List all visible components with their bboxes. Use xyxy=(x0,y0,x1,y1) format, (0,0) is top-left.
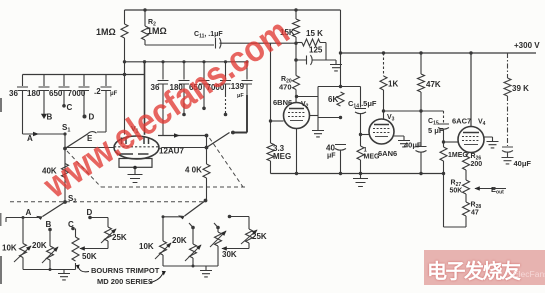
scan edge marks xyxy=(0,98,2,284)
svg-text:200: 200 xyxy=(471,161,483,168)
svg-text:10K: 10K xyxy=(2,244,17,253)
wire V2 plate node xyxy=(297,96,319,98)
potentiometer 50K (left) xyxy=(75,229,77,238)
svg-text:C: C xyxy=(68,220,74,229)
tube V4 internals xyxy=(463,132,479,134)
svg-text:15 K: 15 K xyxy=(306,29,323,38)
potentiometer 20K (left) xyxy=(49,230,51,247)
wire grid V2 xyxy=(271,120,284,122)
contact arrowhead (right bank) xyxy=(178,215,185,219)
ground (V3 right) xyxy=(398,141,410,147)
capacitor 36 (right bank) xyxy=(158,62,169,136)
resistor 1MEG (V4 grid) xyxy=(443,142,445,147)
switch S1 arm xyxy=(65,134,88,149)
svg-text:40μF: 40μF xyxy=(404,141,422,150)
wire V1 right plate xyxy=(158,135,207,137)
capacitor 7000 (left bank) xyxy=(79,75,90,116)
tube V2 6BN6 envelope xyxy=(284,103,310,129)
potentiometer 30K (right) xyxy=(214,223,218,232)
tube V3 6AN6 envelope xyxy=(369,119,394,144)
svg-text:10K: 10K xyxy=(139,242,154,251)
svg-text:V4: V4 xyxy=(478,119,486,128)
svg-text:6AC7: 6AC7 xyxy=(452,117,471,126)
capacitor 36 (left bank) xyxy=(17,75,28,135)
wiper wire 25K to 50K xyxy=(80,248,108,250)
resistor R2 1M xyxy=(144,10,146,26)
svg-text:B: B xyxy=(46,220,52,229)
svg-text:.2: .2 xyxy=(94,87,101,96)
switch S1 wire to contact A xyxy=(23,133,66,135)
potentiometer 25K (right) xyxy=(230,217,250,230)
wire +300V feed vertical xyxy=(340,10,342,87)
capacitor 40uF (load) xyxy=(502,147,513,157)
wire V3 right pin xyxy=(394,136,404,140)
potentiometer 10K (right) xyxy=(160,241,167,255)
svg-text:1MΩ: 1MΩ xyxy=(147,26,167,36)
wire +300V rail xyxy=(341,52,537,54)
svg-text:40μF: 40μF xyxy=(514,159,532,168)
tube V1 internals xyxy=(122,138,149,145)
capacitor 7000 (right bank) xyxy=(220,62,231,95)
potentiometer 20K (right) xyxy=(189,223,193,244)
svg-text:6BN6: 6BN6 xyxy=(273,98,292,107)
svg-text:650: 650 xyxy=(49,89,63,98)
wire A' to 10K xyxy=(6,218,42,223)
capacitor C11 .1uF xyxy=(216,38,222,49)
svg-text:40: 40 xyxy=(326,144,335,153)
svg-text:A: A xyxy=(27,134,33,143)
svg-text:Eout: Eout xyxy=(491,185,504,196)
svg-text:1K: 1K xyxy=(388,80,398,89)
capacitor C14 .5uF xyxy=(355,87,366,147)
capacitor .139uF (right bank) xyxy=(242,62,253,95)
svg-text:6K: 6K xyxy=(328,95,338,104)
resistor 3.3MEG xyxy=(270,43,272,143)
svg-text:20K: 20K xyxy=(172,236,187,245)
wire V1 left grid to S1 pivot xyxy=(65,134,114,202)
wire V2 right pin xyxy=(310,115,319,117)
contact A' arrowhead xyxy=(36,216,43,220)
svg-text:470: 470 xyxy=(279,83,292,92)
resistor 6K xyxy=(337,92,344,106)
svg-text:7000: 7000 xyxy=(68,89,86,98)
gang dashed link S1-S1' xyxy=(10,138,246,202)
svg-text:5 μF: 5 μF xyxy=(428,126,444,135)
wire left cap-bank rail xyxy=(23,74,145,76)
wire V3 grid xyxy=(361,134,370,136)
capacitor 650 (left bank) xyxy=(59,75,70,106)
resistor 40K (left) xyxy=(62,164,69,178)
ground (right pot bank) xyxy=(205,266,207,270)
svg-text:47: 47 xyxy=(471,210,479,217)
wire V2 screen vertical xyxy=(317,87,319,131)
svg-text:D: D xyxy=(89,113,95,122)
red watermark box bottom right xyxy=(424,250,545,285)
svg-text:μF: μF xyxy=(110,91,118,97)
wire V1 right grid xyxy=(162,147,207,149)
ground (main rail) xyxy=(360,174,362,179)
svg-text:50K: 50K xyxy=(82,252,97,261)
switch S1' arm xyxy=(207,133,230,148)
ground (left pot bank) xyxy=(63,270,65,274)
svg-text:μF: μF xyxy=(237,93,244,99)
svg-text:4 0K: 4 0K xyxy=(185,166,202,175)
tube V1 heater box xyxy=(119,159,152,168)
tube V3 internals xyxy=(374,124,389,126)
wire right cap-bank rail xyxy=(125,61,248,63)
Eout wiper arrow xyxy=(475,188,506,190)
contact A'' arrowhead xyxy=(174,133,180,137)
contact E arc xyxy=(87,132,97,135)
svg-text:1MΩ: 1MΩ xyxy=(96,27,116,37)
svg-text:μF: μF xyxy=(327,153,336,160)
wire left pot ground rail xyxy=(23,269,76,271)
svg-text:A: A xyxy=(26,208,32,217)
gang dashed link S2-S2' xyxy=(10,201,203,203)
capacitor 40uF (first) xyxy=(335,145,346,174)
ground (125 cap) xyxy=(335,60,337,64)
wire V1 left plate line xyxy=(144,62,146,135)
wiper wire 25K to 30K (right) xyxy=(222,248,249,250)
svg-text:47K: 47K xyxy=(426,80,441,89)
svg-text:B: B xyxy=(47,113,53,122)
svg-text:C: C xyxy=(67,103,73,112)
svg-text:12AU7: 12AU7 xyxy=(159,147,184,156)
tube V4 6AC7 envelope xyxy=(458,127,484,153)
ground (V4 right) xyxy=(487,142,499,148)
wire ground rail xyxy=(271,173,444,175)
wire V2 cathode xyxy=(296,129,298,174)
resistor 1MEG (V3 grid) xyxy=(357,146,364,160)
svg-text:30K: 30K xyxy=(222,250,237,259)
wire plate bus to C15 xyxy=(384,110,444,112)
svg-text:25K: 25K xyxy=(252,232,267,241)
contact A arrowhead xyxy=(33,132,39,136)
svg-text:C11, .1μF: C11, .1μF xyxy=(194,31,223,40)
capacitor 125 xyxy=(296,55,336,65)
wire contact to 10K (right) xyxy=(163,217,184,241)
wire V4 right pin xyxy=(484,137,493,141)
svg-text:BOURNS TRIMPOT: BOURNS TRIMPOT xyxy=(91,266,160,275)
svg-text:50K: 50K xyxy=(450,188,463,195)
wire C11 to 15K node xyxy=(220,42,297,44)
capacitor 650 (right bank) xyxy=(199,62,210,108)
svg-text:MEG: MEG xyxy=(273,152,291,161)
capacitor 40uF (second) xyxy=(416,147,427,174)
ground (V1) xyxy=(134,167,136,174)
svg-text:36: 36 xyxy=(9,89,18,98)
svg-text:+300 V: +300 V xyxy=(514,41,540,50)
potentiometer 10K (left) xyxy=(22,218,24,244)
ground (load) xyxy=(502,158,514,164)
svg-text:1MEG: 1MEG xyxy=(448,152,468,159)
svg-text:125: 125 xyxy=(309,46,323,55)
wire V2 g3 xyxy=(318,117,341,119)
resistor 1M (left) xyxy=(124,10,126,24)
resistor R27 50K xyxy=(463,180,470,194)
tube V1 12AU7 envelope xyxy=(114,136,159,159)
resistor R26 200 xyxy=(466,152,469,156)
resistor 15K vertical xyxy=(295,10,297,19)
wire V4 grid xyxy=(444,141,459,143)
resistor 1K xyxy=(383,53,385,76)
capacitor 180 (right bank) xyxy=(179,62,190,114)
capacitor .2uF (left bank) xyxy=(97,75,112,133)
svg-text:MD 200 SERIES: MD 200 SERIES xyxy=(97,277,153,286)
svg-text:20K: 20K xyxy=(32,241,47,250)
wire plate to C14 xyxy=(318,86,361,88)
wire V3 plate xyxy=(383,111,385,120)
wire R2 to C11 xyxy=(145,44,214,46)
switch S2 arm xyxy=(43,202,66,217)
svg-text:39 K: 39 K xyxy=(512,84,529,93)
resistor R28 47 xyxy=(463,202,470,216)
resistor 15K horizontal xyxy=(296,42,302,44)
wire V4 plate to rail xyxy=(470,53,472,127)
svg-text:180: 180 xyxy=(27,89,41,98)
wire output loop bottom xyxy=(444,226,467,228)
resistor 40K (right) xyxy=(206,136,208,165)
ground (V2 right) xyxy=(312,131,324,137)
svg-text:25K: 25K xyxy=(112,233,127,242)
switch S2' arm (right) xyxy=(185,201,206,217)
squiggle arrow to right bank xyxy=(150,272,164,283)
potentiometer 25K (left) xyxy=(90,218,108,228)
svg-text:S1: S1 xyxy=(62,123,70,134)
svg-text:6AN6: 6AN6 xyxy=(378,149,397,158)
resistor 47K xyxy=(420,53,422,74)
wire right pot ground rail xyxy=(163,265,218,267)
capacitor C15 5uF xyxy=(443,111,445,123)
tube V2 internals xyxy=(289,108,304,110)
wire top rail xyxy=(125,9,341,11)
svg-text:C14 .5μF: C14 .5μF xyxy=(348,99,377,110)
resistor 39K (dash-dot load) xyxy=(502,53,514,164)
svg-text:D: D xyxy=(87,208,93,217)
capacitor 180 (left bank) xyxy=(39,75,50,115)
svg-text:www.elecfans.com: www.elecfans.com xyxy=(35,10,296,206)
resistor R20 470 xyxy=(295,43,297,75)
squiggle arrow to 50K xyxy=(1,98,167,284)
